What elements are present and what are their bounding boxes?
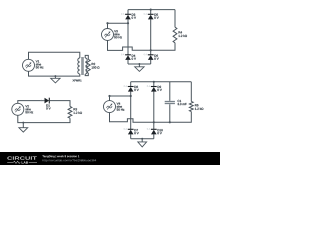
diode D8 — [124, 85, 139, 91]
wire — [131, 138, 154, 140]
wire — [110, 112, 192, 123]
diode D6 — [144, 54, 159, 60]
bridge rectifier 1 — [102, 9, 187, 72]
footer title text — [42, 155, 79, 158]
ground — [138, 138, 147, 147]
capacitor C1 — [165, 100, 187, 105]
ground — [19, 122, 28, 133]
voltage source V2 (sine) — [12, 103, 33, 115]
wire — [128, 63, 151, 65]
voltage source V3 (sine) — [102, 29, 122, 41]
ground — [51, 75, 60, 83]
diode D3 — [121, 13, 136, 19]
wire — [128, 9, 175, 11]
transformer demo circuit — [23, 52, 100, 83]
junction — [153, 121, 155, 123]
wire — [108, 41, 176, 51]
junction — [127, 22, 129, 24]
junction — [106, 22, 108, 24]
voltage source V4 (sine) — [104, 101, 125, 113]
resistor R4 — [173, 27, 187, 43]
wire — [174, 10, 176, 28]
diode D1 — [41, 98, 51, 110]
junction — [150, 9, 152, 11]
resistor R2 — [86, 59, 99, 73]
wire — [131, 81, 192, 83]
wire — [85, 55, 88, 59]
wire — [108, 23, 129, 28]
diode D7 — [124, 128, 139, 134]
junction — [169, 121, 171, 123]
wire — [85, 73, 88, 76]
wire — [29, 71, 80, 76]
transformer XFMR1 — [73, 57, 88, 81]
wire — [18, 115, 70, 122]
wire — [190, 82, 192, 102]
wire — [49, 101, 70, 107]
CircuitLab logo — [7, 156, 37, 159]
wire — [150, 10, 152, 64]
junction — [108, 95, 110, 97]
wire — [169, 82, 171, 123]
resistor R3 — [68, 106, 82, 118]
junction — [153, 81, 155, 83]
ground — [135, 63, 144, 71]
wire — [29, 52, 80, 59]
diode D9 — [147, 85, 162, 91]
wire — [130, 82, 132, 139]
junction — [130, 95, 132, 97]
wire — [127, 10, 129, 64]
wire — [110, 96, 131, 101]
resistor R5 — [189, 101, 203, 111]
diode D4 — [121, 54, 136, 60]
junction — [150, 49, 152, 51]
wire — [18, 101, 45, 104]
bridge rectifier 2 with filter capacitor — [104, 81, 204, 147]
diode D10 — [147, 128, 163, 134]
diode D5 — [144, 13, 159, 19]
voltage source V1 (sine) — [23, 59, 44, 71]
wire — [153, 82, 155, 139]
footer bar — [0, 152, 220, 165]
half-wave rectifier — [12, 98, 82, 132]
